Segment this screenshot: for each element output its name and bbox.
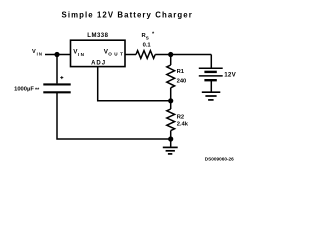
svg-text:IN: IN bbox=[37, 52, 43, 57]
op-amp U1 LM338 regulator box bbox=[71, 40, 126, 66]
wire: top wire down to battery bbox=[210, 55, 212, 68]
wire: ADJ pin down and right bbox=[98, 67, 171, 101]
wire: R2 to bottom node bbox=[170, 131, 172, 139]
value label 1000uF** bbox=[14, 87, 40, 94]
wire: VIN input to box bbox=[45, 54, 71, 56]
svg-text:2.4k: 2.4k bbox=[177, 122, 189, 128]
wire: junction down to capacitor bbox=[56, 55, 58, 84]
ground (below battery) bbox=[202, 92, 221, 100]
node B junction dot (RS / R1) bbox=[168, 52, 173, 57]
resistor R2 2.4k (vertical zigzag) bbox=[167, 109, 175, 131]
label RS* bbox=[142, 32, 156, 41]
svg-text:12V: 12V bbox=[224, 71, 236, 78]
svg-text:R2: R2 bbox=[177, 114, 184, 120]
svg-text:0.1: 0.1 bbox=[143, 43, 152, 49]
wire: R1 to ADJ node bbox=[170, 88, 172, 101]
wire: capacitor bottom down and right to R2 bottom node bbox=[57, 92, 171, 139]
node A junction dot (input / capacitor) bbox=[54, 52, 59, 57]
node C junction dot (ADJ / R1 / R2) bbox=[168, 98, 173, 103]
wire: battery to ground bbox=[210, 80, 212, 91]
battery BT1 12V bbox=[199, 68, 223, 80]
svg-text:DS009060-26: DS009060-26 bbox=[205, 157, 234, 162]
svg-text:R1: R1 bbox=[177, 69, 185, 75]
svg-text:1000µF: 1000µF bbox=[14, 87, 34, 93]
wire: RS to battery, across top bbox=[155, 54, 211, 56]
svg-text:S: S bbox=[146, 36, 149, 41]
node VIN input label bbox=[32, 49, 43, 56]
svg-text:Simple 12V Battery Charger: Simple 12V Battery Charger bbox=[62, 10, 193, 19]
svg-text:240: 240 bbox=[177, 79, 187, 85]
node D junction dot (R2 / cap return / ground) bbox=[168, 136, 173, 141]
resistor RS 0.1 (horizontal zigzag) bbox=[136, 51, 155, 59]
wire: node B down to R1 bbox=[170, 55, 172, 66]
resistor R1 240 (vertical zigzag) bbox=[167, 65, 175, 88]
svg-text:IN: IN bbox=[78, 52, 86, 57]
pin label VIN (inside box) bbox=[73, 49, 85, 57]
svg-text:ADJ: ADJ bbox=[91, 61, 106, 67]
ground (below R2) bbox=[163, 139, 178, 154]
pin label VOUT (inside box) bbox=[104, 49, 126, 57]
wire: VOUT pin to resistor RS bbox=[125, 54, 136, 56]
wire: node C down to R2 bbox=[170, 101, 172, 109]
capacitor C1 1000uF bbox=[43, 84, 70, 92]
svg-text:V: V bbox=[32, 49, 36, 55]
svg-text:OUT: OUT bbox=[108, 51, 125, 56]
svg-text:LM338: LM338 bbox=[87, 33, 108, 39]
capacitor plus sign bbox=[60, 76, 63, 79]
